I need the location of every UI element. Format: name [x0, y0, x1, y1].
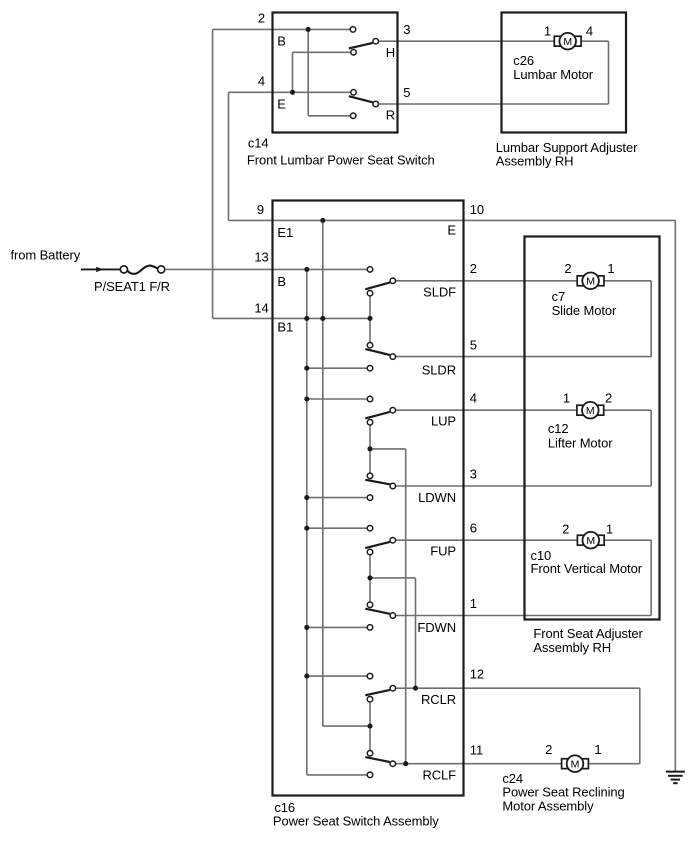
wire B bus vertical [307, 269, 370, 775]
svg-text:14: 14 [254, 300, 268, 315]
svg-text:3: 3 [470, 467, 477, 482]
svg-text:Lumbar Motor: Lumbar Motor [513, 67, 593, 82]
svg-text:11: 11 [470, 742, 483, 757]
switch RCLR in c16 [365, 673, 395, 702]
svg-text:B1: B1 [277, 320, 293, 335]
svg-text:c14: c14 [248, 135, 269, 150]
wire c14 B row (pin 2) [273, 28, 354, 30]
svg-text:6: 6 [470, 521, 477, 536]
wire LUP/LDWN switch common [369, 422, 371, 476]
switch LUP in c16 [365, 396, 395, 425]
svg-text:10: 10 [470, 202, 484, 217]
svg-text:4: 4 [258, 73, 265, 88]
wire LUP common branch to pin 11 wire [370, 449, 406, 764]
svg-text:SLDF: SLDF [423, 284, 456, 299]
node B bus at FDWN feed [304, 625, 309, 630]
svg-text:Assembly RH: Assembly RH [496, 154, 574, 169]
fuse P/SEAT1 F/R [120, 266, 164, 274]
node B bus at FUP feed [304, 526, 309, 531]
svg-text:E1: E1 [277, 225, 293, 240]
svg-text:2: 2 [545, 742, 552, 757]
switch LDWN in c16 [365, 473, 395, 500]
motor c10 front vertical [577, 532, 604, 549]
svg-text:P/SEAT1 F/R: P/SEAT1 F/R [94, 279, 170, 294]
wire pin 11 to c24 motor [393, 763, 640, 765]
svg-text:1: 1 [606, 521, 613, 536]
wire c14 pin 2 to c16 pin 14 (B1) [213, 29, 370, 318]
switch SLDR in c16 [365, 342, 395, 371]
connector box c16 Power Seat Switch Assembly [273, 201, 464, 796]
svg-text:5: 5 [470, 338, 477, 353]
wire c12 motor loop to pin 3 [393, 410, 651, 486]
svg-text:13: 13 [254, 250, 268, 265]
svg-text:E: E [447, 222, 456, 237]
svg-text:Front Lumbar Power Seat Switch: Front Lumbar Power Seat Switch [247, 153, 435, 168]
svg-text:2: 2 [258, 10, 265, 25]
svg-text:B: B [277, 274, 286, 289]
svg-text:B: B [277, 33, 286, 48]
wire FUP/FDWN switch common [369, 552, 371, 605]
node RCL common junction [367, 724, 372, 729]
svg-text:Power Seat Switch Assembly: Power Seat Switch Assembly [273, 814, 439, 829]
svg-text:2: 2 [564, 261, 571, 276]
svg-text:M: M [571, 759, 580, 771]
node B1 junction on SLD common [367, 316, 372, 321]
svg-text:4: 4 [586, 23, 593, 38]
wire fuse to c16 pin 13 [165, 268, 370, 270]
wire pin 10 to ground [464, 220, 676, 771]
connector box c26 Lumbar Support Adjuster Assembly RH [502, 13, 627, 133]
svg-text:FDWN: FDWN [417, 620, 456, 635]
battery feed wire with arrow [81, 267, 121, 272]
svg-text:2: 2 [562, 521, 569, 536]
node B bus at RCLR feed [304, 674, 309, 679]
wire E bus vertical [323, 220, 370, 726]
node B junction pin 13 [304, 267, 309, 272]
svg-text:Power Seat Reclining: Power Seat Reclining [502, 785, 624, 800]
svg-text:12: 12 [470, 666, 484, 681]
svg-text:c26: c26 [513, 53, 534, 68]
svg-text:M: M [586, 276, 595, 288]
svg-text:Slide Motor: Slide Motor [552, 303, 617, 318]
svg-text:RCLF: RCLF [422, 768, 456, 783]
node B1 junction on E bus [320, 316, 325, 321]
wire c7 motor loop to pin 5 [393, 281, 651, 357]
node c14 B junction [306, 27, 311, 32]
svg-text:FUP: FUP [430, 544, 456, 559]
wire pin 4 to c12 motor [393, 409, 577, 411]
wire SLD switch common [369, 293, 371, 345]
svg-text:1: 1 [544, 23, 551, 38]
wire c14 H pivot link [293, 52, 354, 92]
motor c24 reclining [562, 755, 589, 772]
ground symbol [666, 772, 685, 784]
wire c14 pin 3 to c26 motor [376, 40, 555, 42]
wire pin 2 to c7 motor [393, 280, 577, 282]
switch SLDF in c16 [365, 267, 395, 296]
motor c12 lifter [577, 402, 604, 419]
node B bus at LUP feed [304, 396, 309, 401]
node B1 junction on B bus [304, 316, 309, 321]
node B bus at SLDR feed [304, 366, 309, 371]
svg-text:2: 2 [470, 261, 477, 276]
svg-text:LDWN: LDWN [418, 490, 456, 505]
node LUP common junction [367, 446, 372, 451]
switch FUP in c16 [365, 525, 395, 554]
connector box c14 Front Lumbar Power Seat Switch [273, 13, 398, 133]
switch H in c14 [349, 27, 379, 55]
svg-text:3: 3 [403, 22, 410, 37]
wire FUP common branch to pin 12 wire [370, 578, 416, 688]
wire c14 pin 4 to c16 pin 9 (E1) [229, 92, 273, 220]
svg-text:1: 1 [594, 742, 601, 757]
svg-text:M: M [586, 535, 595, 547]
wire pin 6 to c10 motor [393, 539, 578, 541]
switch R in c14 [349, 90, 379, 119]
svg-text:1: 1 [470, 596, 477, 611]
svg-text:4: 4 [470, 391, 477, 406]
wire feed row to LUP contact [307, 398, 370, 400]
svg-text:2: 2 [605, 391, 612, 406]
wire RCL switch common [369, 699, 371, 753]
svg-text:H: H [386, 45, 395, 60]
node E1 junction [320, 218, 325, 223]
svg-text:Motor Assembly: Motor Assembly [502, 799, 594, 814]
svg-text:5: 5 [403, 85, 410, 100]
svg-text:RCLR: RCLR [421, 692, 456, 707]
svg-text:E: E [277, 96, 286, 111]
svg-text:1: 1 [607, 261, 614, 276]
svg-text:from Battery: from Battery [11, 248, 81, 263]
switch RCLF in c16 [365, 750, 395, 777]
node branch joins RCLR output [413, 686, 418, 691]
wire feed row to RCLR contact [307, 675, 370, 677]
wire c16 E1 row (pin 9 to pin 10) [273, 219, 464, 221]
motor c26 lumbar [554, 33, 581, 50]
switch FDWN in c16 [365, 602, 395, 630]
svg-text:Lifter Motor: Lifter Motor [548, 436, 613, 451]
svg-text:LUP: LUP [431, 413, 456, 428]
svg-text:SLDR: SLDR [422, 363, 456, 378]
wire c14 pin 5 to c26 motor loop [376, 41, 609, 104]
motor c7 slide [577, 273, 604, 290]
svg-text:Assembly RH: Assembly RH [533, 640, 611, 655]
wire feed row to SLDR contact [307, 367, 370, 369]
node c14 E junction [290, 90, 295, 95]
node FUP common junction [367, 575, 372, 580]
svg-text:R: R [386, 108, 395, 123]
svg-text:9: 9 [257, 202, 264, 217]
svg-text:M: M [563, 36, 572, 48]
svg-text:Lumbar Support Adjuster: Lumbar Support Adjuster [496, 140, 638, 155]
wire c14 B bus to lower contact [308, 29, 353, 115]
wire c10 motor loop to pin 1 [393, 540, 651, 615]
svg-text:Front Vertical Motor: Front Vertical Motor [531, 561, 643, 576]
node branch joins RCLF output [403, 761, 408, 766]
assembly box Front Seat Adjuster Assembly RH [525, 237, 660, 620]
svg-text:1: 1 [563, 391, 570, 406]
wire feed row to FDWN contact [307, 626, 370, 628]
wire feed row to LDWN contact [307, 497, 370, 499]
wire c14 E row (pin 4) [273, 91, 354, 93]
wire pin 12 to c24 motor loop [393, 688, 640, 764]
node B bus at LDWN feed [304, 495, 309, 500]
wire feed row to FUP contact [307, 527, 370, 529]
svg-text:M: M [586, 405, 595, 417]
svg-text:c12: c12 [548, 421, 569, 436]
